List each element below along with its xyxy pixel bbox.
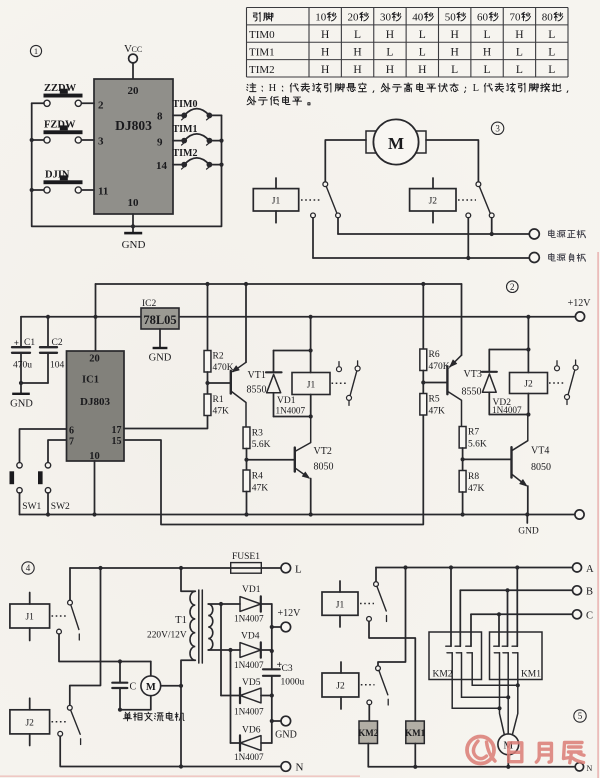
svg-text:C: C [130,682,137,693]
svg-text:H: H [321,29,329,41]
svg-text:H: H [321,64,329,76]
svg-text:M: M [146,682,156,693]
svg-text:KM1: KM1 [405,728,425,738]
svg-text:R6: R6 [429,350,440,360]
svg-text:47K: 47K [429,407,446,417]
svg-text:L: L [295,563,302,575]
svg-text:VT4: VT4 [531,446,549,457]
svg-text:15: 15 [112,436,122,447]
svg-text:7: 7 [69,437,74,448]
svg-text:5.6K: 5.6K [252,440,271,450]
svg-text:70: 70 [509,11,521,23]
svg-text:80: 80 [542,11,554,23]
svg-text:TIM0: TIM0 [249,29,275,41]
svg-text:C1: C1 [24,338,35,348]
svg-text:1N4007: 1N4007 [234,707,264,717]
svg-text:30: 30 [380,11,392,23]
svg-text:C3: C3 [282,664,293,674]
svg-text:L: L [484,29,491,41]
svg-text:M: M [388,134,404,153]
svg-text:5.6K: 5.6K [468,440,487,450]
svg-text:TIM2: TIM2 [249,64,275,76]
svg-text:60: 60 [477,11,489,23]
svg-text:1N4007: 1N4007 [492,405,522,415]
svg-text:8550: 8550 [462,387,482,398]
svg-text:L: L [354,29,361,41]
svg-text:8050: 8050 [314,462,334,473]
svg-text:47K: 47K [252,484,268,494]
svg-text:VT1: VT1 [248,370,266,381]
svg-text:220V/12V: 220V/12V [147,631,187,641]
svg-text:L: L [451,64,458,76]
svg-text:H: H [418,64,426,76]
svg-text:GND: GND [149,353,172,364]
svg-text:17: 17 [112,425,122,436]
svg-text:78L05: 78L05 [143,313,176,327]
svg-text:L: L [516,46,523,58]
svg-text:J1: J1 [25,613,34,623]
svg-text:L: L [516,64,523,76]
svg-text:J2: J2 [336,682,345,692]
svg-text:6: 6 [69,426,74,437]
svg-text:SW1: SW1 [22,502,41,512]
svg-text:L: L [419,46,426,58]
svg-text:14: 14 [156,160,168,172]
svg-text:11: 11 [98,186,108,198]
svg-text:VD5: VD5 [242,678,261,688]
svg-text:GND: GND [122,239,146,251]
svg-text:KM2: KM2 [358,728,378,738]
svg-text:20: 20 [89,354,100,365]
svg-text:IC1: IC1 [82,375,99,386]
svg-text:470u: 470u [13,361,32,371]
svg-text:H: H [269,83,277,94]
svg-text:GND: GND [275,730,297,741]
svg-text:47K: 47K [213,407,230,417]
svg-text:H: H [451,46,459,58]
svg-text:1: 1 [34,46,38,56]
svg-text:2: 2 [98,100,104,112]
svg-text:10: 10 [128,197,140,209]
svg-text:H: H [451,29,459,41]
svg-text:A: A [586,564,594,575]
svg-text:1N4007: 1N4007 [234,660,264,670]
svg-text:50: 50 [445,11,457,23]
svg-text:9: 9 [157,137,163,149]
svg-text:8: 8 [157,111,163,123]
svg-text:C: C [586,611,593,622]
svg-text:L: L [548,46,555,58]
svg-text:104: 104 [50,361,65,371]
svg-text:R4: R4 [252,472,263,482]
svg-text:2: 2 [510,282,515,292]
svg-text:3: 3 [98,136,104,148]
svg-text:40: 40 [412,11,424,23]
svg-text:4: 4 [26,563,31,573]
svg-text:1N4007: 1N4007 [234,752,264,762]
svg-text:+: + [14,338,19,348]
svg-text:R1: R1 [213,395,224,405]
svg-text:10: 10 [315,11,327,23]
svg-text:DJ803: DJ803 [115,118,152,133]
svg-text:GND: GND [10,399,33,410]
svg-text:L: L [386,46,393,58]
svg-text:L: L [419,29,426,41]
svg-text:47K: 47K [468,484,485,494]
svg-text:H: H [515,29,523,41]
svg-text:SW2: SW2 [51,502,70,512]
svg-text:1N4007: 1N4007 [276,405,306,415]
svg-text:VT2: VT2 [314,446,332,457]
svg-text:3: 3 [495,124,500,134]
svg-text:R7: R7 [468,428,479,438]
svg-text:J2: J2 [429,197,438,207]
svg-text:1000u: 1000u [281,678,305,688]
svg-text:H: H [386,64,394,76]
svg-text:N: N [587,764,593,773]
svg-text:20: 20 [128,85,140,97]
svg-text:8550: 8550 [247,385,267,396]
svg-text:IC2: IC2 [142,299,157,309]
svg-text:VD1: VD1 [242,585,261,595]
svg-text:H: H [483,46,491,58]
svg-text:J2: J2 [25,718,34,728]
svg-text:R5: R5 [429,395,440,405]
svg-text:B: B [586,587,593,598]
svg-text:FUSE1: FUSE1 [232,552,260,562]
svg-text:T1: T1 [175,615,187,626]
svg-text:20: 20 [348,11,360,23]
svg-text:R2: R2 [213,352,224,362]
svg-text:DJ803: DJ803 [80,396,110,408]
svg-text:VT3: VT3 [464,369,482,380]
svg-text:L: L [548,64,555,76]
svg-text:KM1: KM1 [521,670,541,680]
svg-text:TIM1: TIM1 [249,46,275,58]
svg-text:R8: R8 [468,472,479,482]
svg-text:J1: J1 [336,601,345,611]
svg-text:L: L [473,83,479,94]
svg-text:J2: J2 [524,380,533,390]
svg-text:VD4: VD4 [241,632,260,642]
svg-text:J1: J1 [272,197,281,207]
svg-text:+12V: +12V [278,608,302,619]
svg-text:L: L [548,29,555,41]
svg-text:C2: C2 [52,338,63,348]
svg-text:+12V: +12V [568,298,592,309]
svg-text:5: 5 [578,711,583,721]
svg-text:VD1: VD1 [277,396,296,406]
svg-text:R3: R3 [252,429,263,439]
svg-text:H: H [353,64,361,76]
svg-text:H: H [353,46,361,58]
svg-text:H: H [386,29,394,41]
svg-text:J1: J1 [307,381,316,391]
svg-text:8050: 8050 [531,462,551,473]
svg-text:H: H [321,46,329,58]
svg-text:KM2: KM2 [433,670,453,680]
svg-text:CC: CC [132,45,143,54]
svg-text:N: N [296,762,304,774]
svg-text:1N4007: 1N4007 [234,614,264,624]
svg-text:L: L [484,64,491,76]
svg-text:VD6: VD6 [242,726,261,736]
svg-text:GND: GND [518,527,539,537]
